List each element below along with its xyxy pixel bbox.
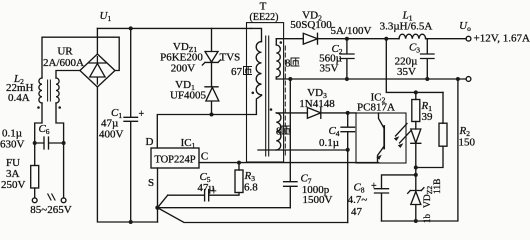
terminal Uo negative <box>466 77 471 82</box>
node C8 branch junction <box>414 173 418 177</box>
wire AC neutral lead <box>56 103 64 198</box>
wire feedback winding top to VD3 <box>276 112 307 114</box>
svg-text:67: 67 <box>231 66 243 78</box>
wire sense branch from +12V rail <box>386 39 443 93</box>
svg-text:35V: 35V <box>397 66 416 78</box>
capacitor C3 220u 35V <box>421 39 434 79</box>
node drain clamp junction <box>210 113 214 117</box>
label AC source mark <box>48 194 55 200</box>
node C3 bottom junction <box>425 77 429 81</box>
winding primary 67T <box>256 42 261 95</box>
transformer T EE22 outline box <box>247 23 284 162</box>
wire bias return line <box>258 149 348 151</box>
node ground-to-return junction <box>456 77 460 81</box>
svg-text:C: C <box>201 151 208 163</box>
terminal Uo positive <box>466 36 471 41</box>
node C7 top junction <box>288 77 292 81</box>
wire secondary ground bottom rail <box>382 79 458 221</box>
svg-text:2A/600A: 2A/600A <box>43 57 84 69</box>
svg-text:TOP224P: TOP224P <box>154 155 195 166</box>
node R1 top junction <box>414 90 418 94</box>
optocoupler IC2 PC817A box <box>356 113 406 163</box>
wire choke right winding to bridge AC left <box>56 71 80 79</box>
transformer core <box>266 36 269 156</box>
wire source return diagonal rail <box>158 208 348 223</box>
svg-text:0.4A: 0.4A <box>8 92 30 104</box>
resistor R1 39 <box>415 92 417 99</box>
svg-text:8: 8 <box>276 126 282 138</box>
node C2 top junction <box>345 37 349 41</box>
svg-text:3.3µH/6.5A: 3.3µH/6.5A <box>380 21 433 33</box>
wire C5 diagonal to source node <box>158 195 168 208</box>
svg-text:UF4005: UF4005 <box>170 90 207 102</box>
svg-text:0.1µ: 0.1µ <box>319 137 339 149</box>
diode VD3 1N4148 <box>307 108 320 119</box>
wire bridge plus to top rail <box>96 28 98 54</box>
inductor L1 3.3uH/6.5A <box>399 34 426 39</box>
node C1 bottom junction <box>129 220 133 224</box>
wire choke left winding to bridge AC right <box>42 37 119 78</box>
svg-text:150: 150 <box>459 137 476 149</box>
wire C8 branch <box>382 175 416 189</box>
bridge rectifier UR 2A/600A <box>80 54 115 87</box>
capacitor C6 0.1u 630V <box>35 137 64 149</box>
svg-text:250V: 250V <box>1 179 26 191</box>
node C4 bottom junction <box>346 148 350 152</box>
fuse FU 3A 250V <box>31 166 39 189</box>
wire output positive rail 5A/100V <box>318 38 467 40</box>
diode VD1 UF4005 <box>205 87 219 115</box>
svg-text:200V: 200V <box>171 63 196 75</box>
svg-text:+: + <box>139 109 145 120</box>
svg-text:50SQ100: 50SQ100 <box>290 19 332 31</box>
svg-text:S: S <box>148 177 154 189</box>
capacitor C5 47u <box>168 190 209 201</box>
node source junction <box>155 206 159 210</box>
svg-text:UR: UR <box>57 46 73 58</box>
svg-text:39: 39 <box>422 111 434 123</box>
svg-text:PC817A: PC817A <box>357 102 395 114</box>
svg-text:630V: 630V <box>0 139 25 151</box>
svg-text:+: + <box>371 181 377 192</box>
resistor R3 6.8 <box>238 163 240 170</box>
node R branch junction <box>384 37 388 41</box>
wire bias return drop to source rail <box>347 150 349 223</box>
svg-text:47µ: 47µ <box>197 182 214 194</box>
node C4 top junction <box>346 111 350 115</box>
node C1 top junction <box>129 26 133 30</box>
capacitor C4 0.1u <box>341 113 355 150</box>
svg-text:T: T <box>260 1 267 13</box>
node zener bottom junction <box>414 219 418 223</box>
wire secondary ground rail <box>276 78 466 80</box>
svg-text:D: D <box>146 136 154 148</box>
svg-text:47: 47 <box>351 206 363 218</box>
svg-text:TVS: TVS <box>220 52 241 64</box>
wire source return to C7 <box>158 207 291 209</box>
node C6 left junction <box>33 141 37 145</box>
svg-text:8: 8 <box>285 58 291 70</box>
winding secondary 8T <box>276 45 280 77</box>
phototransistor of IC2 <box>378 113 385 163</box>
capacitor C7 1000p 1500V <box>284 79 297 208</box>
wire control line <box>199 162 379 164</box>
winding feedback 8T <box>276 113 281 150</box>
node R3 top junction <box>237 161 241 165</box>
node C2 bottom junction <box>345 77 349 81</box>
svg-text:4.7~: 4.7~ <box>348 194 368 206</box>
TVS VDz1 P6KE200 200V <box>202 28 220 86</box>
svg-text:35V: 35V <box>320 63 339 75</box>
svg-text:1500V: 1500V <box>303 194 333 206</box>
LED of optocoupler IC2 <box>411 129 421 191</box>
svg-text:5A/100V: 5A/100V <box>331 25 372 37</box>
svg-text:+12V, 1.67A: +12V, 1.67A <box>474 33 530 45</box>
capacitor C8 4.7~47 <box>375 189 389 221</box>
capacitor C2 560u 35V <box>340 39 354 79</box>
wire secondary top to VD2 <box>276 38 303 40</box>
svg-text:(EE22): (EE22) <box>250 12 279 23</box>
zener VDz2 <box>408 188 424 221</box>
node LED cathode junction <box>414 166 418 170</box>
resistor R2 150 <box>442 92 444 123</box>
terminal AC right <box>61 198 66 203</box>
svg-text:6.8: 6.8 <box>244 182 258 194</box>
terminal AC left <box>32 198 37 203</box>
wire drain rail <box>157 96 261 149</box>
svg-text:1N4148: 1N4148 <box>299 98 335 110</box>
wire AC live lead with fuse branch <box>35 103 42 198</box>
transformer shield dashed line <box>284 46 286 158</box>
IC1 TOP224P <box>151 148 199 168</box>
wire bridge minus to bottom rail <box>97 87 157 222</box>
light arrows <box>396 124 412 144</box>
svg-text:400V: 400V <box>99 129 124 141</box>
diode VD2 50SQ100 <box>303 33 317 44</box>
inductor L2 22mH 0.4A common-mode choke <box>39 78 42 103</box>
svg-text:11B: 11B <box>433 179 443 194</box>
capacitor C1 47u 400V <box>124 28 138 222</box>
node C6 right junction <box>62 141 66 145</box>
svg-text:85~265V: 85~265V <box>30 204 71 216</box>
wire source pin <box>157 168 159 222</box>
wire top DC rail <box>97 27 251 29</box>
